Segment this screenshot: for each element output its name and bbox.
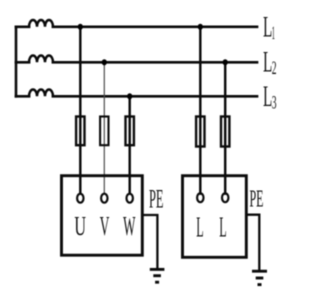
fuse 4 bbox=[196, 117, 204, 147]
terminal circle L (second) bbox=[222, 193, 228, 202]
terminal circle L (first) bbox=[197, 193, 203, 202]
svg-text:L: L bbox=[219, 213, 226, 244]
junction node on L1 at tap 4 bbox=[198, 24, 203, 30]
label L1 bbox=[263, 11, 275, 45]
svg-text:U: U bbox=[74, 211, 86, 241]
svg-text:V: V bbox=[100, 211, 110, 241]
label L2 bbox=[263, 46, 277, 80]
terminal circle U bbox=[77, 194, 83, 203]
inductor choke on L2 bbox=[29, 55, 53, 62]
label L3 bbox=[263, 80, 277, 114]
ground symbol at box 1 bbox=[150, 269, 165, 282]
junction node on L2 at tap 2 bbox=[102, 59, 107, 65]
junction node on L1 at tap 1 bbox=[78, 24, 83, 30]
inductor choke on L3 bbox=[29, 90, 53, 97]
tap wire from L2 to fuse 2 and terminal V (thin grey) bbox=[103, 62, 105, 193]
svg-text:W: W bbox=[123, 211, 136, 241]
line L2 wire bbox=[16, 61, 257, 64]
svg-text:PE: PE bbox=[149, 184, 164, 213]
fuse 2 bbox=[100, 117, 108, 146]
tap wire from L3 to fuse 3 and terminal W bbox=[128, 96, 130, 193]
equipment box 2 (L L device) bbox=[183, 176, 247, 258]
equipment box 1 (U V W device) bbox=[62, 176, 143, 256]
fuse 1 bbox=[76, 117, 84, 146]
fuse 3 bbox=[126, 117, 134, 146]
tap wire from L1 to fuse 1 and terminal U bbox=[79, 27, 81, 194]
tap wire from L2 to fuse 5 and second L terminal bbox=[224, 62, 226, 193]
junction node on L3 at tap 3 bbox=[127, 93, 132, 99]
line L1 wire bbox=[16, 25, 257, 28]
inductor choke on L1 bbox=[29, 20, 53, 27]
svg-text:PE: PE bbox=[250, 186, 264, 213]
ground symbol at box 2 bbox=[252, 271, 267, 284]
tap wire from L1 to fuse 4 and first L terminal bbox=[199, 27, 201, 194]
PE wire from box 1 bbox=[142, 215, 158, 269]
left bus wire bbox=[15, 27, 18, 97]
svg-text:2: 2 bbox=[272, 58, 277, 79]
svg-text:1: 1 bbox=[272, 23, 275, 44]
terminal circle W bbox=[127, 194, 133, 203]
line L3 wire bbox=[16, 95, 257, 98]
svg-text:L: L bbox=[196, 213, 203, 244]
PE wire from box 2 bbox=[246, 215, 260, 271]
fuse 5 bbox=[221, 117, 229, 147]
terminal circle V bbox=[101, 194, 107, 203]
junction node on L2 at tap 5 bbox=[223, 59, 228, 65]
svg-text:3: 3 bbox=[272, 93, 277, 114]
